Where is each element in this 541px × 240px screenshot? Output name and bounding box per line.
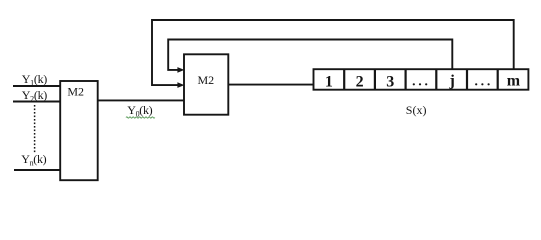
register cell divider 3|...: [405, 69, 407, 90]
arrowhead of inner feedback into U2: [177, 67, 184, 73]
wire from U2 output to shift register input: [228, 84, 314, 86]
cell dots between j and m: [475, 83, 490, 85]
feedback loop from cell j (inner): [168, 40, 452, 70]
svg-text:j: j: [449, 73, 455, 90]
block M2 (left modulo-2 adder U1): [60, 81, 97, 180]
svg-text:1: 1: [325, 73, 333, 90]
register cell divider ...|j: [435, 69, 437, 90]
svg-text:M2: M2: [198, 73, 215, 87]
register cell divider 2|3: [374, 69, 376, 90]
svg-text:Yn(k): Yn(k): [21, 152, 46, 168]
register cell divider ...|m: [497, 69, 499, 90]
wire Y0 from U1 to U2: [98, 99, 184, 101]
svg-text:2: 2: [356, 73, 364, 90]
svg-text:Y0(k): Y0(k): [127, 103, 152, 119]
svg-text:M2: M2: [67, 85, 84, 99]
svg-text:S(x): S(x): [406, 103, 427, 117]
register cell divider j|...: [466, 69, 468, 90]
register cell divider 1|2: [343, 69, 345, 90]
svg-text:Y2(k): Y2(k): [22, 88, 47, 104]
wire input Yn: [14, 169, 61, 171]
wire input Y2: [13, 101, 61, 103]
block M2 (feedback modulo-2 adder U2): [184, 54, 228, 114]
feedback loop from cell m (outer): [152, 20, 514, 85]
arrowhead of outer feedback into U2: [177, 82, 184, 88]
svg-text:3: 3: [386, 73, 394, 90]
svg-text:Y1(k): Y1(k): [22, 72, 47, 88]
svg-text:m: m: [507, 72, 521, 89]
shift register S(x) body: [314, 69, 529, 90]
wire input Y1: [13, 85, 61, 87]
grammar squiggle under Y0(k): [126, 117, 155, 118]
dotted ellipsis line between Y2 and Yn inputs: [34, 105, 36, 153]
cell dots between 3 and j: [413, 83, 428, 85]
